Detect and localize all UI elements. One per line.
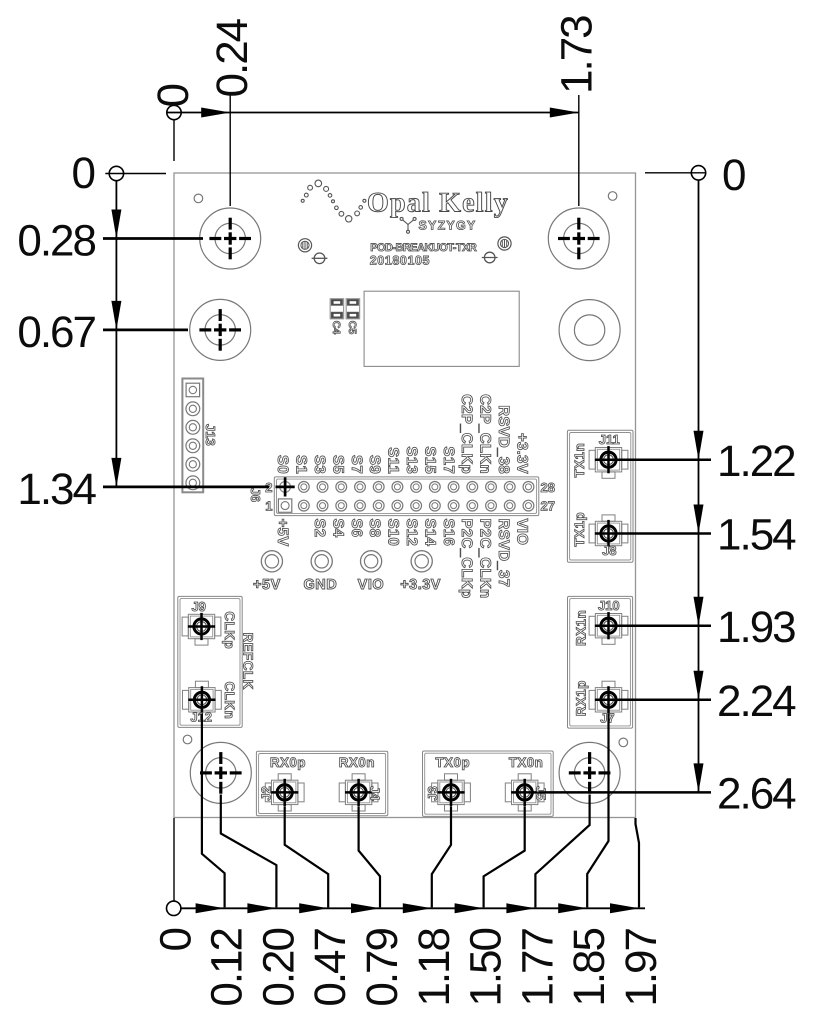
svg-text:J8: J8: [602, 543, 616, 558]
connector J4 (RX0n): [345, 780, 371, 804]
svg-text:0: 0: [149, 85, 198, 108]
connector J2 (RX0p): [272, 780, 298, 804]
svg-text:J10: J10: [598, 598, 620, 613]
svg-text:1.93: 1.93: [717, 603, 795, 652]
svg-text:1.73: 1.73: [553, 16, 602, 94]
mounting hole bottom-right: [559, 742, 620, 803]
svg-text:28: 28: [541, 480, 555, 495]
connector J5 (TX0n): [512, 780, 538, 804]
mounting hole top-right: [548, 208, 609, 269]
header J6 pads: [278, 482, 533, 513]
bottom arrow 0.12: [196, 903, 225, 913]
bottom datum stub wire: [173, 818, 175, 902]
connector J9 (CLKp): [188, 614, 214, 638]
svg-text:J6: J6: [248, 488, 263, 502]
svg-text:0: 0: [72, 149, 95, 198]
svg-text:CLKp: CLKp: [222, 611, 237, 649]
svg-text:J11: J11: [599, 432, 620, 447]
left datum stub wire: [105, 173, 166, 175]
bottom dimension line: [181, 907, 645, 909]
header J6 pin-1 datum cross: [276, 486, 295, 489]
svg-text:GND: GND: [304, 577, 338, 593]
RX1 connector group box: [568, 596, 633, 728]
extension line x=1.73: [578, 95, 580, 206]
svg-text:+3.3V: +3.3V: [513, 433, 530, 474]
RX0 connector group box: [256, 751, 387, 815]
silk theta symbol right: [484, 252, 495, 263]
leader wire y=2.24: [622, 699, 711, 702]
svg-text:S0: S0: [274, 455, 291, 474]
bottom arrow 1.18: [403, 903, 432, 913]
leader wire J12 to 0.12: [202, 714, 225, 908]
left arrow 0.67: [111, 301, 121, 330]
svg-text:RX0p: RX0p: [270, 755, 306, 770]
left dimension line: [115, 181, 117, 487]
svg-text:TX1p: TX1p: [572, 512, 587, 547]
svg-text:REFCLK: REFCLK: [241, 633, 256, 690]
svg-text:C2P_CLKn: C2P_CLKn: [477, 394, 494, 474]
right dimension line: [698, 180, 700, 792]
svg-text:1.50: 1.50: [462, 928, 511, 1006]
left datum circle: [109, 166, 123, 180]
leader wire y=1.93: [622, 624, 711, 627]
svg-text:J4: J4: [367, 786, 382, 801]
extension line x=0.24: [229, 93, 231, 206]
svg-text:SYZYGY: SYZYGY: [419, 219, 477, 233]
svg-text:S6: S6: [348, 519, 365, 538]
connector J8 (TX1p): [595, 521, 621, 545]
svg-text:0.28: 0.28: [17, 217, 95, 266]
right arrow 1.22: [694, 431, 704, 460]
header J6 top row signal labels: [274, 394, 530, 474]
svg-text:S8: S8: [366, 519, 383, 538]
svg-text:RX0n: RX0n: [339, 755, 375, 770]
REFCLK connector group box: [178, 596, 242, 727]
svg-text:0: 0: [722, 151, 745, 200]
top datum stub wire: [173, 120, 175, 161]
fiducial bottom-right: [619, 738, 628, 747]
bottom datum circle: [167, 901, 181, 915]
top dimension line: [167, 112, 579, 114]
mounting hole bottom-left: [190, 742, 251, 803]
svg-text:J2: J2: [259, 786, 274, 800]
svg-text:1.85: 1.85: [565, 928, 614, 1006]
right datum stub wire: [645, 172, 706, 174]
silk theta symbol left: [314, 253, 325, 264]
right arrow 1.93: [694, 597, 704, 626]
svg-text:P2C_CLKp: P2C_CLKp: [458, 519, 475, 599]
leader wire J3 to 1.18: [432, 806, 451, 907]
fiducial top-left: [194, 194, 203, 203]
leader wire y=0.67: [103, 329, 188, 332]
svg-text:RSVD_37: RSVD_37: [495, 519, 512, 588]
test point +3.3V: [411, 551, 432, 572]
mounting hole mid-right (plain): [559, 300, 620, 361]
svg-text:0.12: 0.12: [203, 928, 252, 1006]
left arrow 0.28: [111, 210, 121, 239]
svg-text:20180105: 20180105: [370, 254, 430, 268]
SYZYGY Y-glyph: [400, 217, 416, 233]
leader wire y=0.28: [103, 237, 203, 240]
svg-text:0.67: 0.67: [17, 308, 95, 357]
header J6 bottom row signal labels: [274, 519, 530, 599]
right arrow 1.54: [694, 505, 704, 534]
TX0 connector group box: [423, 751, 554, 816]
bottom arrow 0.79: [351, 903, 380, 913]
leader wire y=1.22: [622, 458, 711, 461]
leader wire y=1.34: [103, 486, 269, 489]
svg-text:J3: J3: [425, 786, 440, 800]
right arrow 2.24: [694, 671, 704, 700]
svg-text:S17: S17: [440, 446, 457, 474]
svg-text:J9: J9: [191, 599, 205, 614]
svg-text:1.34: 1.34: [17, 465, 96, 514]
svg-text:S10: S10: [385, 519, 402, 547]
connector J11 (TX1n): [595, 448, 621, 472]
capacitor C5: [346, 299, 359, 319]
svg-text:1: 1: [265, 499, 272, 514]
top arrow 0.24: [201, 108, 230, 118]
svg-text:S11: S11: [385, 447, 402, 474]
svg-text:S4: S4: [329, 519, 346, 538]
svg-text:P2C_CLKn: P2C_CLKn: [477, 519, 494, 599]
svg-text:1.54: 1.54: [717, 511, 796, 560]
svg-text:Opal Kelly: Opal Kelly: [367, 188, 509, 219]
svg-text:POD-BREAKUOT-TXR: POD-BREAKUOT-TXR: [370, 242, 477, 254]
mounting hole mid-left: [190, 299, 251, 360]
svg-text:S7: S7: [348, 455, 365, 474]
svg-text:RSVD_38: RSVD_38: [495, 405, 512, 474]
svg-text:S2: S2: [311, 519, 328, 538]
svg-text:0.79: 0.79: [358, 928, 407, 1006]
svg-text:2.24: 2.24: [717, 677, 796, 726]
svg-text:S1: S1: [293, 455, 310, 474]
svg-text:S15: S15: [421, 446, 438, 474]
connector J3 (TX0p): [438, 780, 464, 804]
fiducial bottom-left: [183, 735, 192, 744]
bottom arrow 1.50: [455, 903, 484, 913]
connector J12 (CLKn): [189, 688, 215, 712]
svg-text:1.22: 1.22: [717, 437, 795, 486]
test point VIO: [361, 551, 382, 572]
svg-text:2.64: 2.64: [717, 770, 796, 819]
capacitor C4: [330, 299, 343, 319]
bottom arrow 1.97: [610, 903, 639, 913]
mounting hole top-left: [200, 208, 261, 269]
silk target symbol right: [498, 237, 511, 250]
svg-text:RX1n: RX1n: [573, 610, 588, 646]
test point GND: [311, 551, 332, 572]
svg-text:1.18: 1.18: [410, 928, 459, 1006]
svg-text:1.97: 1.97: [617, 928, 666, 1006]
leader wire J7 to 1.85: [587, 714, 608, 908]
svg-text:1.77: 1.77: [513, 928, 562, 1006]
fiducial top-right: [608, 192, 617, 201]
left arrow 1.34: [111, 458, 121, 487]
svg-text:J13: J13: [203, 424, 218, 446]
connector J13: [182, 379, 203, 493]
top arrow 1.73: [550, 108, 579, 118]
svg-text:+5V: +5V: [274, 519, 291, 547]
right arrow 2.64: [694, 763, 704, 792]
svg-text:TX0p: TX0p: [435, 755, 470, 770]
component body outline U1: [364, 291, 519, 366]
test point +5V: [261, 551, 282, 572]
svg-text:S9: S9: [366, 455, 383, 474]
svg-text:+5V: +5V: [253, 577, 281, 593]
leader wire y=2.64: [538, 791, 711, 794]
header J6 body: [274, 477, 539, 516]
svg-text:0.47: 0.47: [306, 928, 355, 1006]
leader wire hole to 0.20: [221, 795, 277, 908]
connector J10 (RX1n): [595, 614, 621, 638]
svg-text:C2P_CLKp: C2P_CLKp: [458, 394, 475, 474]
PCB board outline: [174, 173, 636, 818]
svg-text:TX0n: TX0n: [509, 755, 544, 770]
svg-text:S14: S14: [421, 519, 438, 547]
svg-text:C4: C4: [330, 321, 342, 335]
svg-text:CLKn: CLKn: [222, 682, 237, 720]
connector J7 (RX1p): [595, 688, 621, 712]
TX1 connector group box: [567, 430, 633, 562]
svg-text:TX1n: TX1n: [572, 443, 587, 478]
top datum circle: [167, 105, 181, 119]
svg-text:27: 27: [541, 499, 555, 514]
bottom arrow 0.20: [247, 903, 276, 913]
leader wire J4 to 0.79: [359, 806, 380, 907]
svg-text:S12: S12: [403, 519, 420, 547]
silk target symbol left: [298, 239, 311, 252]
svg-text:+3.3V: +3.3V: [400, 577, 441, 593]
leader wire y=1.54: [622, 532, 711, 535]
svg-text:C5: C5: [346, 321, 358, 335]
svg-text:S3: S3: [311, 455, 328, 474]
svg-text:S5: S5: [329, 455, 346, 474]
right datum circle: [691, 166, 705, 180]
svg-text:RX1p: RX1p: [573, 680, 588, 716]
bottom arrow 1.85: [558, 903, 587, 913]
bottom arrow 1.77: [506, 903, 535, 913]
svg-text:VIO: VIO: [358, 577, 384, 593]
svg-text:S13: S13: [403, 446, 420, 474]
bottom arrow 0.47: [299, 903, 328, 913]
leader wire J2 to 0.47: [285, 806, 329, 907]
svg-text:0: 0: [152, 928, 201, 951]
leader wire hole to 1.77: [535, 795, 589, 908]
leader wire edge to 1.97: [636, 818, 640, 907]
svg-text:VIO: VIO: [513, 519, 530, 546]
svg-text:0.20: 0.20: [254, 928, 303, 1006]
svg-text:S16: S16: [440, 519, 457, 547]
svg-text:0.24: 0.24: [208, 18, 257, 97]
leader wire J5 to 1.50: [484, 806, 525, 907]
Opal Kelly logo dotted wave: [301, 180, 366, 222]
